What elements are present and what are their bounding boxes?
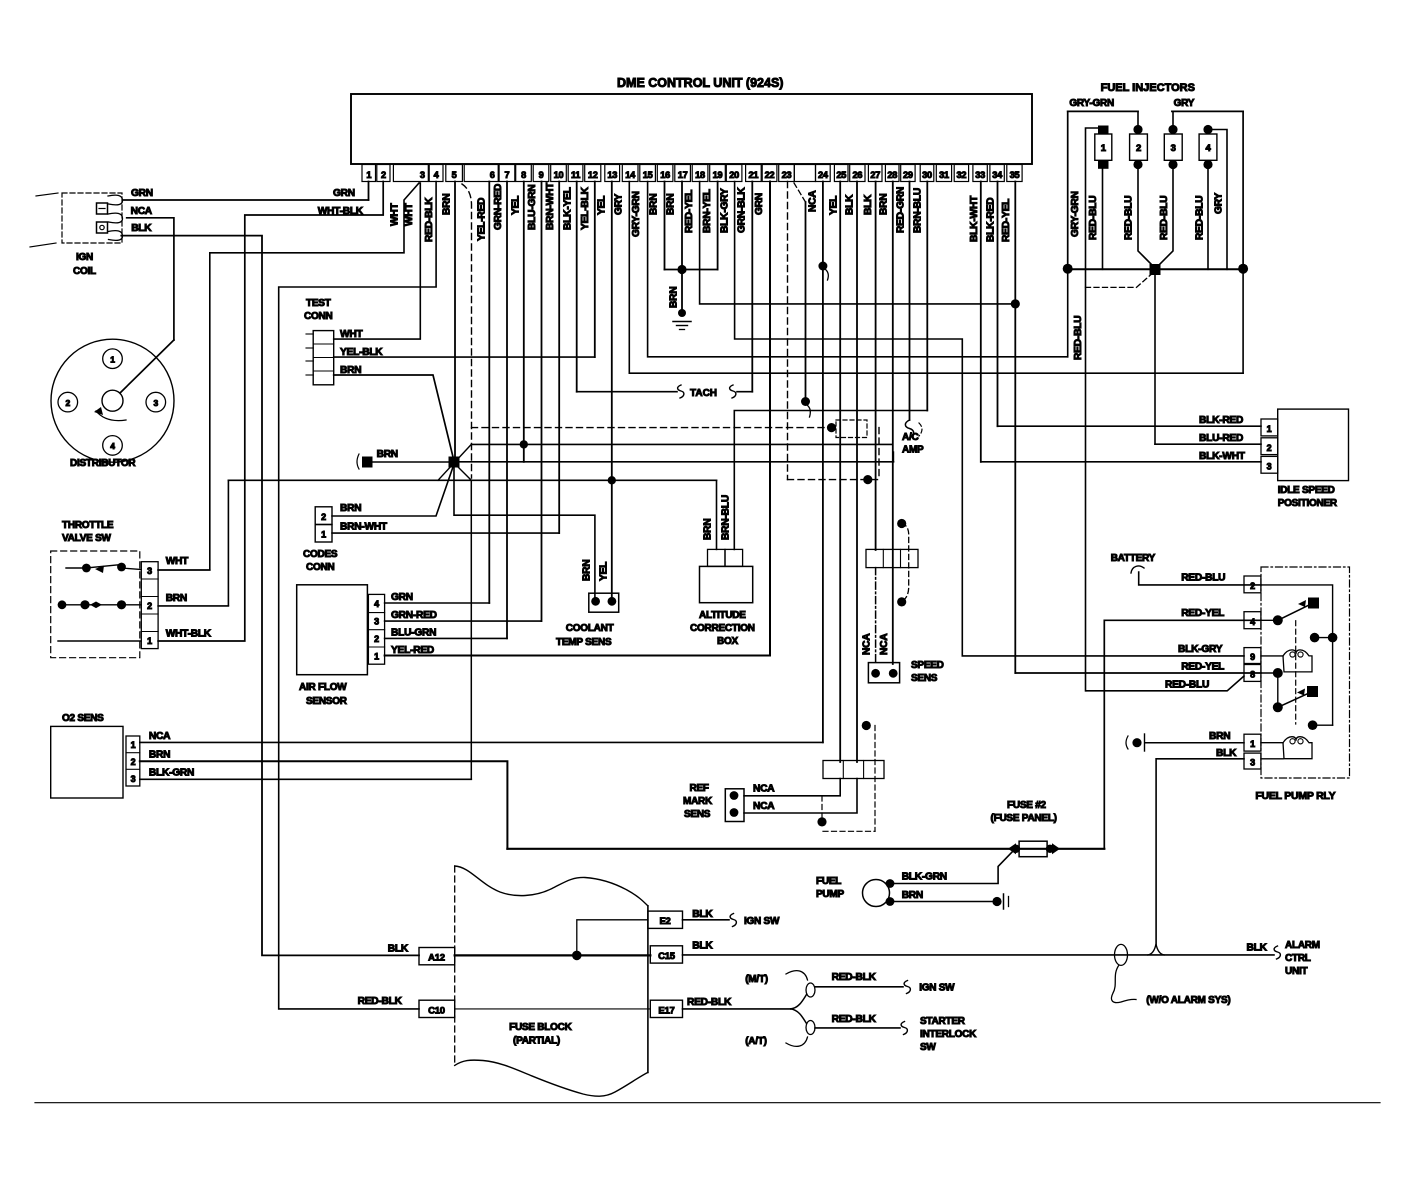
wire pin 11 YEL-BLK bbox=[576, 182, 578, 392]
wire pin 23 dashed NCA bbox=[787, 182, 789, 480]
injector 1 terminals bbox=[1098, 126, 1109, 135]
injector 2 terminals bbox=[1133, 125, 1142, 134]
svg-text:STARTER: STARTER bbox=[920, 1016, 966, 1027]
svg-text:POSITIONER: POSITIONER bbox=[1278, 498, 1338, 509]
pin 16 cell bbox=[657, 165, 673, 182]
relay coil 2 bbox=[1261, 742, 1283, 744]
svg-text:FUEL PUMP RLY: FUEL PUMP RLY bbox=[1255, 790, 1335, 802]
air flow terminal column bbox=[368, 594, 384, 664]
DME control unit (924S) box bbox=[351, 94, 1032, 164]
svg-text:BLK-WHT: BLK-WHT bbox=[1199, 451, 1246, 462]
svg-text:1: 1 bbox=[366, 170, 371, 180]
wire pin 29 RED-GRN to A/C amp bbox=[909, 182, 911, 421]
relay t4 internal arm bbox=[1261, 619, 1278, 621]
codes conn connector bbox=[315, 507, 332, 525]
svg-text:11: 11 bbox=[571, 170, 580, 180]
wire codes BRN to star bbox=[332, 464, 454, 516]
M/T grommet bbox=[806, 983, 815, 997]
speed sens terminal dots bbox=[871, 669, 880, 678]
svg-text:13: 13 bbox=[607, 170, 617, 180]
wire pin 7 YEL bbox=[506, 182, 508, 639]
svg-text:29: 29 bbox=[903, 170, 913, 180]
svg-text:3: 3 bbox=[374, 617, 379, 627]
svg-text:23: 23 bbox=[782, 170, 792, 180]
svg-text:GRN: GRN bbox=[333, 188, 355, 199]
svg-text:BRN: BRN bbox=[649, 194, 660, 215]
junction dot inside fuse block bbox=[572, 951, 582, 961]
svg-text:24: 24 bbox=[818, 170, 829, 180]
svg-text:BRN: BRN bbox=[442, 194, 453, 215]
svg-text:3: 3 bbox=[420, 170, 425, 180]
svg-text:RED-YEL: RED-YEL bbox=[1001, 199, 1012, 242]
terminal E2 bbox=[648, 911, 683, 928]
svg-text:RED-BLU: RED-BLU bbox=[1073, 316, 1084, 360]
svg-text:10: 10 bbox=[554, 170, 564, 180]
wire fuel pump BLK-GRN to fuse bbox=[890, 851, 1013, 884]
ign sw squiggle E2 bbox=[730, 914, 736, 927]
fuel pump BRN end connector bbox=[992, 897, 1001, 906]
injector 3 terminals bbox=[1168, 125, 1177, 134]
wire A12 to C15 internal bbox=[455, 954, 651, 956]
svg-text:NCA: NCA bbox=[879, 633, 890, 655]
svg-text:NCA: NCA bbox=[131, 206, 153, 217]
wire pin 10 BLK-YEL bbox=[558, 182, 560, 534]
relay lower contact arm bbox=[1278, 691, 1313, 707]
wire TACH to pin 21 bbox=[737, 391, 752, 393]
wire inj3 top stub bbox=[1172, 111, 1174, 129]
svg-text:BLK: BLK bbox=[131, 223, 152, 234]
pin 3 cell bbox=[393, 165, 428, 182]
grommet on BLK wire bbox=[1115, 944, 1128, 965]
pin 32 cell bbox=[954, 165, 968, 182]
main feed wire O2-BRN to fuse bbox=[507, 848, 1104, 850]
wire BRN to relay t1 bbox=[1145, 742, 1244, 744]
svg-text:YEL-RED: YEL-RED bbox=[391, 645, 434, 656]
svg-text:1: 1 bbox=[147, 636, 152, 646]
dashed AC connector box bbox=[836, 420, 867, 438]
wire air flow t2 BLU-GRN to pin 7 bbox=[385, 637, 507, 639]
wire bus y480 throttle BRN to altitude bbox=[228, 479, 716, 481]
svg-text:YEL: YEL bbox=[597, 196, 608, 215]
pin 30 cell bbox=[920, 165, 934, 182]
wire inj1 top feed RED-BLU bbox=[1086, 128, 1103, 691]
wire O2 t2 BRN to fuse line bbox=[140, 761, 508, 849]
svg-text:FUEL INJECTORS: FUEL INJECTORS bbox=[1101, 82, 1195, 94]
throttle lower contact wire bbox=[58, 640, 141, 642]
wire E2 BLK to ign sw bbox=[683, 919, 730, 921]
svg-text:RED-BLU: RED-BLU bbox=[1165, 680, 1209, 691]
altitude terminal boxes bbox=[708, 549, 726, 566]
BRN connector symbol at relay t1 bbox=[1132, 738, 1141, 747]
svg-text:BRN: BRN bbox=[149, 750, 170, 761]
fuel pump circle bbox=[863, 880, 890, 907]
svg-text:15: 15 bbox=[643, 170, 653, 180]
svg-text:YEL-RED: YEL-RED bbox=[477, 198, 488, 241]
svg-text:BLU-GRN: BLU-GRN bbox=[527, 184, 538, 230]
svg-text:BRN-BLU: BRN-BLU bbox=[721, 495, 732, 540]
svg-text:C10: C10 bbox=[428, 1006, 445, 1017]
pin 23 cell bbox=[779, 165, 795, 182]
svg-text:E17: E17 bbox=[658, 1006, 674, 1017]
wire inj2 bottom RED-BLU bbox=[1138, 168, 1155, 268]
injector 2 box bbox=[1130, 134, 1148, 160]
svg-text:IGN SW: IGN SW bbox=[919, 983, 955, 994]
wire right bus to pin14 line bbox=[1242, 269, 1244, 374]
svg-text:RED-BLK: RED-BLK bbox=[832, 972, 877, 983]
svg-text:YEL: YEL bbox=[599, 562, 610, 581]
svg-text:2: 2 bbox=[374, 634, 379, 644]
pin 17 cell bbox=[675, 165, 691, 182]
svg-text:2: 2 bbox=[381, 170, 386, 180]
relay mechanical link dashed bbox=[1295, 621, 1297, 724]
wire relay t3 BLK to alarm line bbox=[1156, 759, 1244, 944]
svg-text:BLU-GRN: BLU-GRN bbox=[391, 628, 436, 639]
svg-text:GRN-RED: GRN-RED bbox=[391, 610, 437, 621]
pin 29 cell bbox=[901, 165, 915, 182]
svg-text:BRN: BRN bbox=[1209, 731, 1230, 742]
svg-text:3: 3 bbox=[154, 398, 159, 408]
svg-text:SENSOR: SENSOR bbox=[306, 696, 348, 707]
svg-text:RED-BLK: RED-BLK bbox=[832, 1014, 877, 1025]
pin 21 cell bbox=[746, 165, 762, 182]
svg-text:4: 4 bbox=[374, 599, 379, 609]
air flow sensor box bbox=[297, 585, 368, 675]
svg-text:4: 4 bbox=[1205, 143, 1211, 154]
wire altitude BRN drop bbox=[716, 480, 718, 549]
svg-text:BRN: BRN bbox=[669, 287, 680, 308]
injector GRY bus bbox=[1172, 110, 1243, 112]
svg-text:(W/O ALARM SYS): (W/O ALARM SYS) bbox=[1146, 995, 1230, 1006]
svg-text:25: 25 bbox=[836, 170, 846, 180]
terminal A12 bbox=[419, 948, 455, 965]
svg-text:BRN: BRN bbox=[166, 593, 187, 604]
speed sens left wire dash-dot bbox=[875, 568, 877, 664]
svg-text:BLK: BLK bbox=[692, 909, 713, 920]
dot on dashed NCA bottom bbox=[863, 475, 872, 484]
junction dot pin 13 bbox=[608, 476, 616, 484]
throttle valve sw box bbox=[51, 551, 140, 658]
svg-text:(M/T): (M/T) bbox=[745, 974, 768, 985]
svg-text:3: 3 bbox=[147, 566, 152, 576]
wire pin 27 BLK bbox=[875, 182, 877, 551]
svg-text:7: 7 bbox=[505, 170, 510, 180]
svg-text:INTERLOCK: INTERLOCK bbox=[920, 1029, 977, 1040]
svg-text:5: 5 bbox=[452, 170, 457, 180]
wire inj2 top stub bbox=[1137, 111, 1139, 129]
O2 terminal column bbox=[126, 736, 140, 786]
svg-text:9: 9 bbox=[1250, 652, 1255, 662]
svg-text:TEST: TEST bbox=[306, 298, 331, 309]
ref connector row bbox=[823, 761, 884, 779]
pin 35 cell bbox=[1007, 165, 1022, 182]
injectors RED-BLU bottom bus bbox=[1068, 268, 1243, 270]
wire ref t2 NCA bbox=[744, 779, 857, 814]
svg-text:DME CONTROL UNIT (924S): DME CONTROL UNIT (924S) bbox=[617, 76, 783, 90]
wire altitude BRN-BLU to pin 30 bbox=[734, 411, 927, 550]
alarm squiggle bbox=[1274, 946, 1280, 959]
svg-text:RED-YEL: RED-YEL bbox=[1181, 662, 1224, 673]
svg-text:2: 2 bbox=[131, 757, 136, 767]
inline connector on pin 24 wire bbox=[818, 262, 827, 271]
wire ground bus y444 bbox=[471, 443, 892, 445]
wire relay t8 RED-YEL from pin 35 bbox=[1015, 672, 1261, 674]
svg-text:BRN-YEL: BRN-YEL bbox=[702, 189, 713, 233]
wire pin 12 YEL bbox=[594, 182, 596, 358]
svg-text:C15: C15 bbox=[658, 951, 676, 962]
svg-text:RED-GRN: RED-GRN bbox=[896, 187, 907, 233]
ign coil NCA wire bbox=[127, 218, 174, 340]
distributor cap 1 bbox=[103, 349, 123, 369]
svg-text:A/C: A/C bbox=[902, 432, 919, 443]
svg-text:BRN-WHT: BRN-WHT bbox=[340, 522, 388, 533]
wire BRN to ground bbox=[681, 270, 683, 311]
wire battery RED-BLU to relay t2 bbox=[1139, 572, 1261, 585]
svg-text:SENS: SENS bbox=[911, 673, 938, 684]
wire test conn WHT to pin 3b bbox=[334, 183, 421, 339]
svg-text:NCA: NCA bbox=[862, 633, 873, 655]
ign coil terminal square b bbox=[97, 222, 108, 233]
wire test conn BRN to star junction bbox=[334, 375, 454, 461]
svg-text:3: 3 bbox=[131, 774, 136, 784]
ign coil connector outline bbox=[62, 193, 122, 243]
w/o alarm sys curve bbox=[1111, 965, 1136, 1003]
coil stub marks bbox=[36, 193, 58, 196]
altitude correction box bbox=[700, 566, 753, 602]
svg-text:6: 6 bbox=[490, 170, 495, 180]
svg-text:RED-YEL: RED-YEL bbox=[684, 190, 695, 233]
svg-text:NCA: NCA bbox=[808, 190, 819, 212]
starter interlock squiggle bbox=[901, 1022, 907, 1035]
star junction node bbox=[449, 457, 460, 468]
speed sens connector bbox=[868, 663, 899, 683]
svg-text:O2 SENS: O2 SENS bbox=[62, 713, 104, 724]
svg-text:2: 2 bbox=[147, 601, 152, 611]
svg-text:REF: REF bbox=[690, 783, 709, 794]
svg-text:ALTITUDE: ALTITUDE bbox=[699, 610, 746, 621]
svg-text:NCA: NCA bbox=[753, 784, 775, 795]
wire codes BRN-WHT to pin 10 bbox=[332, 532, 559, 534]
wire pin 9 BRN-WHT bbox=[541, 182, 543, 622]
wire O2 t1 NCA to pin 24 bbox=[140, 741, 823, 743]
svg-text:1: 1 bbox=[374, 652, 379, 662]
pin 15 cell bbox=[640, 165, 656, 182]
throttle middle contact bbox=[62, 604, 141, 606]
wire pin 28 BRN bbox=[892, 182, 894, 665]
coolant temp sens connector bbox=[589, 593, 619, 612]
wire inj3 bottom RED-BLU bbox=[1156, 168, 1173, 268]
svg-text:3: 3 bbox=[1250, 758, 1255, 768]
svg-text:NCA: NCA bbox=[149, 731, 171, 742]
svg-text:22: 22 bbox=[765, 170, 775, 180]
svg-text:RED-BLU: RED-BLU bbox=[1181, 573, 1225, 584]
relay upper contact dots bbox=[1328, 633, 1338, 643]
svg-text:BLK-YEL: BLK-YEL bbox=[563, 187, 574, 230]
distributor cap 4 bbox=[103, 436, 123, 456]
svg-text:BLK-GRN: BLK-GRN bbox=[902, 872, 947, 883]
pin 10 cell bbox=[551, 165, 567, 182]
svg-text:TEMP SENS: TEMP SENS bbox=[556, 637, 612, 648]
wire pin 30 BRN-BLU bbox=[926, 182, 928, 411]
wire air flow t4 GRN to pin 6 bbox=[385, 602, 490, 604]
injector GRY-GRN bus bbox=[1068, 110, 1138, 112]
wire inj1 bottom RED-BLU bbox=[1102, 168, 1104, 269]
pin 28 cell bbox=[885, 165, 899, 182]
svg-text:AIR FLOW: AIR FLOW bbox=[299, 682, 347, 693]
wire pin 1 GRN stub bbox=[368, 182, 370, 201]
svg-text:2: 2 bbox=[1136, 143, 1141, 154]
junction dot pin 18/35 bbox=[1011, 299, 1020, 308]
svg-text:31: 31 bbox=[939, 170, 949, 180]
svg-text:GRN: GRN bbox=[131, 188, 153, 199]
wire idle t1 BLK-RED from pin 34 bbox=[998, 425, 1262, 427]
dot on dashed box bottom bbox=[817, 817, 826, 826]
ref mark sens connector bbox=[725, 789, 744, 822]
svg-text:ALARM: ALARM bbox=[1285, 940, 1320, 951]
dashed NCA wire to AC amp bbox=[472, 427, 832, 429]
fuse block bottom wavy edge bbox=[455, 1060, 648, 1096]
fuse #2 symbol bbox=[1019, 841, 1047, 857]
wire link pins 16-17-19 bbox=[665, 269, 718, 271]
terminal C15 bbox=[650, 946, 682, 963]
svg-text:BLU-RED: BLU-RED bbox=[1199, 433, 1243, 444]
svg-text:WHT: WHT bbox=[390, 202, 401, 226]
wire pin 22 to air flow t1 bbox=[769, 182, 771, 656]
svg-text:4: 4 bbox=[434, 170, 440, 180]
svg-text:12: 12 bbox=[588, 170, 598, 180]
relay t2 internal wire bbox=[1261, 585, 1333, 725]
dashed link pin23 to NCA box bbox=[788, 479, 880, 481]
pin 31 cell bbox=[936, 165, 951, 182]
svg-text:(PARTIAL): (PARTIAL) bbox=[513, 1036, 560, 1047]
svg-text:GRN-BLK: GRN-BLK bbox=[737, 187, 748, 233]
svg-text:PUMP: PUMP bbox=[816, 889, 844, 900]
pin 5 cell bbox=[446, 165, 463, 182]
terminal C10 bbox=[419, 1000, 455, 1017]
junction dot pin 17 bbox=[677, 265, 686, 274]
svg-text:MARK: MARK bbox=[683, 796, 713, 807]
throttle upper contact bbox=[66, 567, 86, 569]
trumpet join of relay t3 BLK bbox=[1148, 944, 1164, 955]
relay lower contact fixed dot bbox=[1308, 720, 1318, 730]
wire pin 34 BLK-RED bbox=[997, 182, 999, 427]
idle speed positioner box bbox=[1278, 409, 1349, 481]
svg-text:18: 18 bbox=[695, 170, 705, 180]
wire air flow t3 GRN-RED to pin 9 bbox=[385, 620, 541, 622]
throttle terminal column bbox=[141, 562, 158, 649]
svg-text:16: 16 bbox=[660, 170, 670, 180]
svg-text:RED-BLU: RED-BLU bbox=[1088, 196, 1099, 240]
dashed NCA box right edge bbox=[878, 428, 880, 480]
wire throttle t3 to riser bbox=[158, 569, 210, 571]
coolant terminal dots bbox=[591, 597, 600, 606]
pin 9 cell bbox=[533, 165, 549, 182]
svg-text:BLK: BLK bbox=[1216, 748, 1237, 759]
svg-text:1: 1 bbox=[1101, 143, 1107, 154]
svg-text:3: 3 bbox=[1171, 143, 1176, 154]
pin 1 cell bbox=[362, 165, 376, 182]
svg-text:2: 2 bbox=[1250, 581, 1255, 591]
fuse block top wavy edge bbox=[455, 866, 648, 906]
pin 27 cell bbox=[868, 165, 882, 182]
svg-text:9: 9 bbox=[539, 170, 544, 180]
svg-text:BRN: BRN bbox=[340, 365, 361, 376]
wire C15 BLK to alarm ctrl bbox=[683, 954, 1275, 956]
svg-text:2: 2 bbox=[321, 512, 326, 522]
dashed connector other half bbox=[919, 423, 922, 436]
wire C10 to E17 internal bbox=[455, 1008, 651, 1010]
svg-text:GRN: GRN bbox=[754, 193, 765, 215]
wire pin 11 to TACH bbox=[577, 391, 677, 393]
svg-text:THROTTLE: THROTTLE bbox=[62, 520, 114, 531]
wire fuse to relay t4 RED-YEL bbox=[1104, 620, 1261, 849]
wire inj4 top GRY stub bbox=[1208, 130, 1227, 270]
wire pin 26 BLK bbox=[856, 182, 858, 763]
wire pin 5 BRN bbox=[454, 182, 456, 459]
wire pin 25 YEL bbox=[839, 182, 841, 763]
svg-text:SENS: SENS bbox=[684, 809, 711, 820]
junction dot pin 8 / ground bus bbox=[520, 440, 528, 448]
svg-text:4: 4 bbox=[1250, 617, 1255, 627]
svg-text:GRY: GRY bbox=[1214, 192, 1225, 214]
wire GRN coil to pin 1 bbox=[123, 199, 369, 201]
injector 4 box bbox=[1199, 134, 1217, 160]
svg-text:RED-YEL: RED-YEL bbox=[1181, 608, 1224, 619]
svg-text:2: 2 bbox=[66, 398, 71, 408]
svg-text:BATTERY: BATTERY bbox=[1111, 553, 1156, 564]
wire pin 17 RED-YEL bbox=[681, 182, 683, 270]
svg-text:RED-BLK: RED-BLK bbox=[358, 996, 403, 1007]
wire fuel pump BRN bbox=[890, 901, 994, 903]
dashed jog inj1 feed to junction bbox=[1086, 271, 1156, 287]
svg-text:YEL: YEL bbox=[511, 196, 522, 215]
injector 1 box bbox=[1095, 134, 1112, 160]
svg-text:RED-BLU: RED-BLU bbox=[1124, 196, 1135, 240]
wire throttle BRN riser bbox=[227, 480, 229, 605]
svg-text:BRN: BRN bbox=[879, 194, 890, 215]
pin 20 cell bbox=[726, 165, 742, 182]
wire BRN ground to star bbox=[372, 461, 449, 463]
svg-text:BRN: BRN bbox=[340, 503, 361, 514]
svg-text:FUEL: FUEL bbox=[816, 876, 841, 887]
svg-text:GRY: GRY bbox=[1174, 98, 1195, 109]
gap cell bbox=[794, 165, 815, 182]
pin 24 cell bbox=[816, 165, 831, 182]
dot on dashed AC wire bbox=[827, 423, 836, 432]
svg-text:(FUSE PANEL): (FUSE PANEL) bbox=[991, 813, 1057, 824]
wire junction to E2 bbox=[577, 920, 648, 956]
svg-text:35: 35 bbox=[1010, 170, 1020, 180]
wire idle t3 BLK-WHT from pin 33 bbox=[981, 461, 1261, 463]
svg-text:34: 34 bbox=[992, 170, 1003, 180]
fuel pump terminal dots bbox=[886, 879, 895, 888]
pin 25 cell bbox=[834, 165, 848, 182]
svg-text:20: 20 bbox=[729, 170, 739, 180]
dashed box at ref sens bbox=[874, 726, 876, 832]
pin 11 cell bbox=[568, 165, 583, 182]
svg-text:RED-BLU: RED-BLU bbox=[1195, 196, 1206, 240]
stub at end of y461 bus bbox=[893, 452, 895, 462]
svg-text:CODES: CODES bbox=[303, 549, 338, 560]
svg-text:DISTRIBUTOR: DISTRIBUTOR bbox=[70, 458, 136, 469]
pin 33 cell bbox=[973, 165, 987, 182]
wire injector junction to idle t2 bbox=[1154, 269, 1156, 444]
E17 fork lower curve bbox=[791, 1009, 807, 1024]
svg-text:CORRECTION: CORRECTION bbox=[690, 623, 755, 634]
wire star down to coolant BRN bbox=[454, 467, 595, 597]
svg-text:8: 8 bbox=[1250, 670, 1255, 680]
distributor rotation arrow bbox=[96, 411, 126, 421]
svg-text:FUSE BLOCK: FUSE BLOCK bbox=[509, 1022, 573, 1033]
